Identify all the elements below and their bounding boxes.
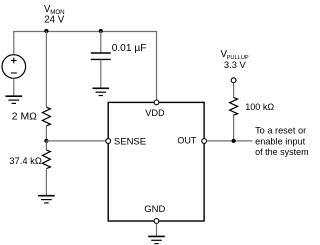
wire vmon source drop: [13, 31, 15, 55]
resistor R1 2 MOhm: [42, 107, 50, 126]
svg-text:enable input: enable input: [255, 136, 306, 146]
svg-text:0.01 µF: 0.01 µF: [112, 43, 147, 54]
svg-text:24 V: 24 V: [44, 15, 65, 26]
svg-text:2 MΩ: 2 MΩ: [12, 112, 37, 123]
ground (capacitor): [93, 88, 110, 95]
wire rail to VDD: [156, 31, 158, 100]
svg-text:of the system: of the system: [255, 147, 309, 157]
pin GND: [154, 219, 159, 224]
wire OUT to system: [207, 140, 253, 142]
wire terminal to R3: [233, 83, 235, 98]
wire R3 to out node: [233, 115, 235, 141]
label VPULLUP: [221, 49, 249, 70]
svg-text:To a reset or: To a reset or: [255, 126, 306, 136]
wire GND pin to ground: [156, 223, 158, 236]
wire tap to SENSE: [46, 140, 106, 142]
label VMON: [44, 4, 65, 25]
svg-text:GND: GND: [144, 204, 165, 215]
wire R2 to ground: [45, 169, 47, 196]
svg-text:3.3 V: 3.3 V: [224, 59, 247, 70]
svg-text:100 kΩ: 100 kΩ: [245, 102, 274, 112]
wire source to ground: [13, 78, 15, 96]
node junction dot (rail / cap): [99, 29, 103, 33]
op-amp U1 box: [108, 102, 204, 221]
resistor R2 37.4 kOhm: [42, 150, 50, 169]
ground (divider): [38, 196, 55, 203]
wire rail to 2M: [45, 31, 47, 107]
svg-text:SENSE: SENSE: [114, 136, 146, 147]
node junction dot (out / pullup): [232, 139, 236, 143]
label output note: [255, 126, 309, 157]
pin SENSE: [106, 139, 111, 144]
node junction dot (rail / 2M): [44, 29, 48, 33]
wire 2M to node: [45, 126, 47, 141]
pin VDD: [154, 100, 159, 105]
wire cap to ground: [100, 59, 102, 88]
ground (IC): [148, 236, 165, 243]
svg-text:OUT: OUT: [177, 136, 197, 146]
pin OUT: [202, 139, 207, 144]
resistor R3 100 kOhm: [230, 98, 238, 116]
svg-text:37.4 kΩ: 37.4 kΩ: [9, 155, 42, 166]
capacitor C1 0.01 uF: [91, 53, 111, 59]
voltage source V1: [2, 55, 26, 79]
svg-text:VDD: VDD: [145, 108, 165, 118]
wire rail to cap: [100, 31, 102, 53]
ground (voltage source): [6, 96, 23, 103]
node junction dot (divider tap): [44, 139, 48, 143]
wire tap to R2: [45, 141, 47, 150]
wire top rail: [13, 31, 157, 33]
terminal (pullup supply): [231, 78, 236, 83]
